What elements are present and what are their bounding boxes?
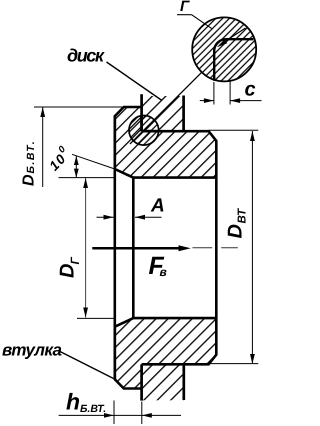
svg-text:A: A (150, 196, 165, 217)
svg-text:диск: диск (67, 45, 105, 65)
label D_b.vt. (rotated) (21, 140, 38, 186)
svg-text:Г: Г (180, 0, 190, 15)
sleeve bead outer edge line (left, full height) (114, 116, 117, 379)
disk lower section (hatched bar) (142, 364, 184, 400)
10 degree horizontal extension line (59, 177, 115, 179)
corner profile inside magnified circle (214, 39, 253, 81)
dimension D_vt line with arrows (250, 131, 255, 364)
svg-text:D: D (57, 264, 79, 278)
dimension h_b.vt. line with outside arrows (59, 413, 181, 418)
svg-text:D: D (225, 224, 247, 238)
dimension h_b.vt. extension lines (113, 401, 115, 425)
svg-text:10: 10 (46, 151, 69, 174)
radius arrow inside magnified circle (221, 28, 246, 44)
label D_g (rotated) (57, 257, 83, 279)
sleeve lower flange (hatched section) (115, 318, 217, 388)
10 degree angular dimension arrows (74, 156, 79, 178)
svg-text:h: h (66, 389, 80, 415)
dimension D_b.vt. line with up arrow (40, 107, 45, 187)
dimension D_vt top extension line (209, 129, 259, 131)
magnified detail circle (radius r) (192, 17, 256, 81)
detail leader line to magnified view (130, 72, 202, 144)
force arrow F_v (92, 245, 191, 251)
dimension c extension lines (213, 82, 215, 105)
disk upper section (hatched bar) (142, 94, 184, 131)
dimension D_vt bottom extension line (209, 363, 259, 365)
dimension D_g line with arrows (83, 178, 88, 318)
svg-text:Г: Г (68, 257, 82, 265)
svg-text:в: в (160, 265, 167, 279)
dimension A (97, 215, 162, 220)
svg-text:с: с (245, 79, 256, 101)
label 10deg (rotated) (44, 143, 74, 173)
10 degree slant extension line (72, 154, 115, 169)
sleeve bore inner edge line (x=133.3) (132, 178, 135, 319)
svg-text:D: D (21, 174, 38, 186)
svg-text:Б.ВТ.: Б.ВТ. (80, 403, 106, 415)
detail circle on main view (129, 116, 159, 146)
label D_vt (rotated) (225, 208, 249, 239)
dimension D_g bottom extension line (77, 317, 115, 319)
dimension c line with outside arrows (200, 98, 262, 103)
sleeve outer wall line (right, through bore region) (215, 178, 218, 319)
dimension D_b.vt. extension line (top) (34, 106, 124, 108)
svg-text:втулка: втулка (2, 341, 62, 360)
svg-text:ВТ: ВТ (237, 208, 249, 224)
svg-text:Б.ВТ.: Б.ВТ. (25, 140, 37, 174)
axis centerline (dash-dot) (193, 247, 238, 249)
re-draw corner lines inside detail circle (140, 116, 143, 131)
sleeve upper flange (hatched section) (115, 107, 217, 178)
